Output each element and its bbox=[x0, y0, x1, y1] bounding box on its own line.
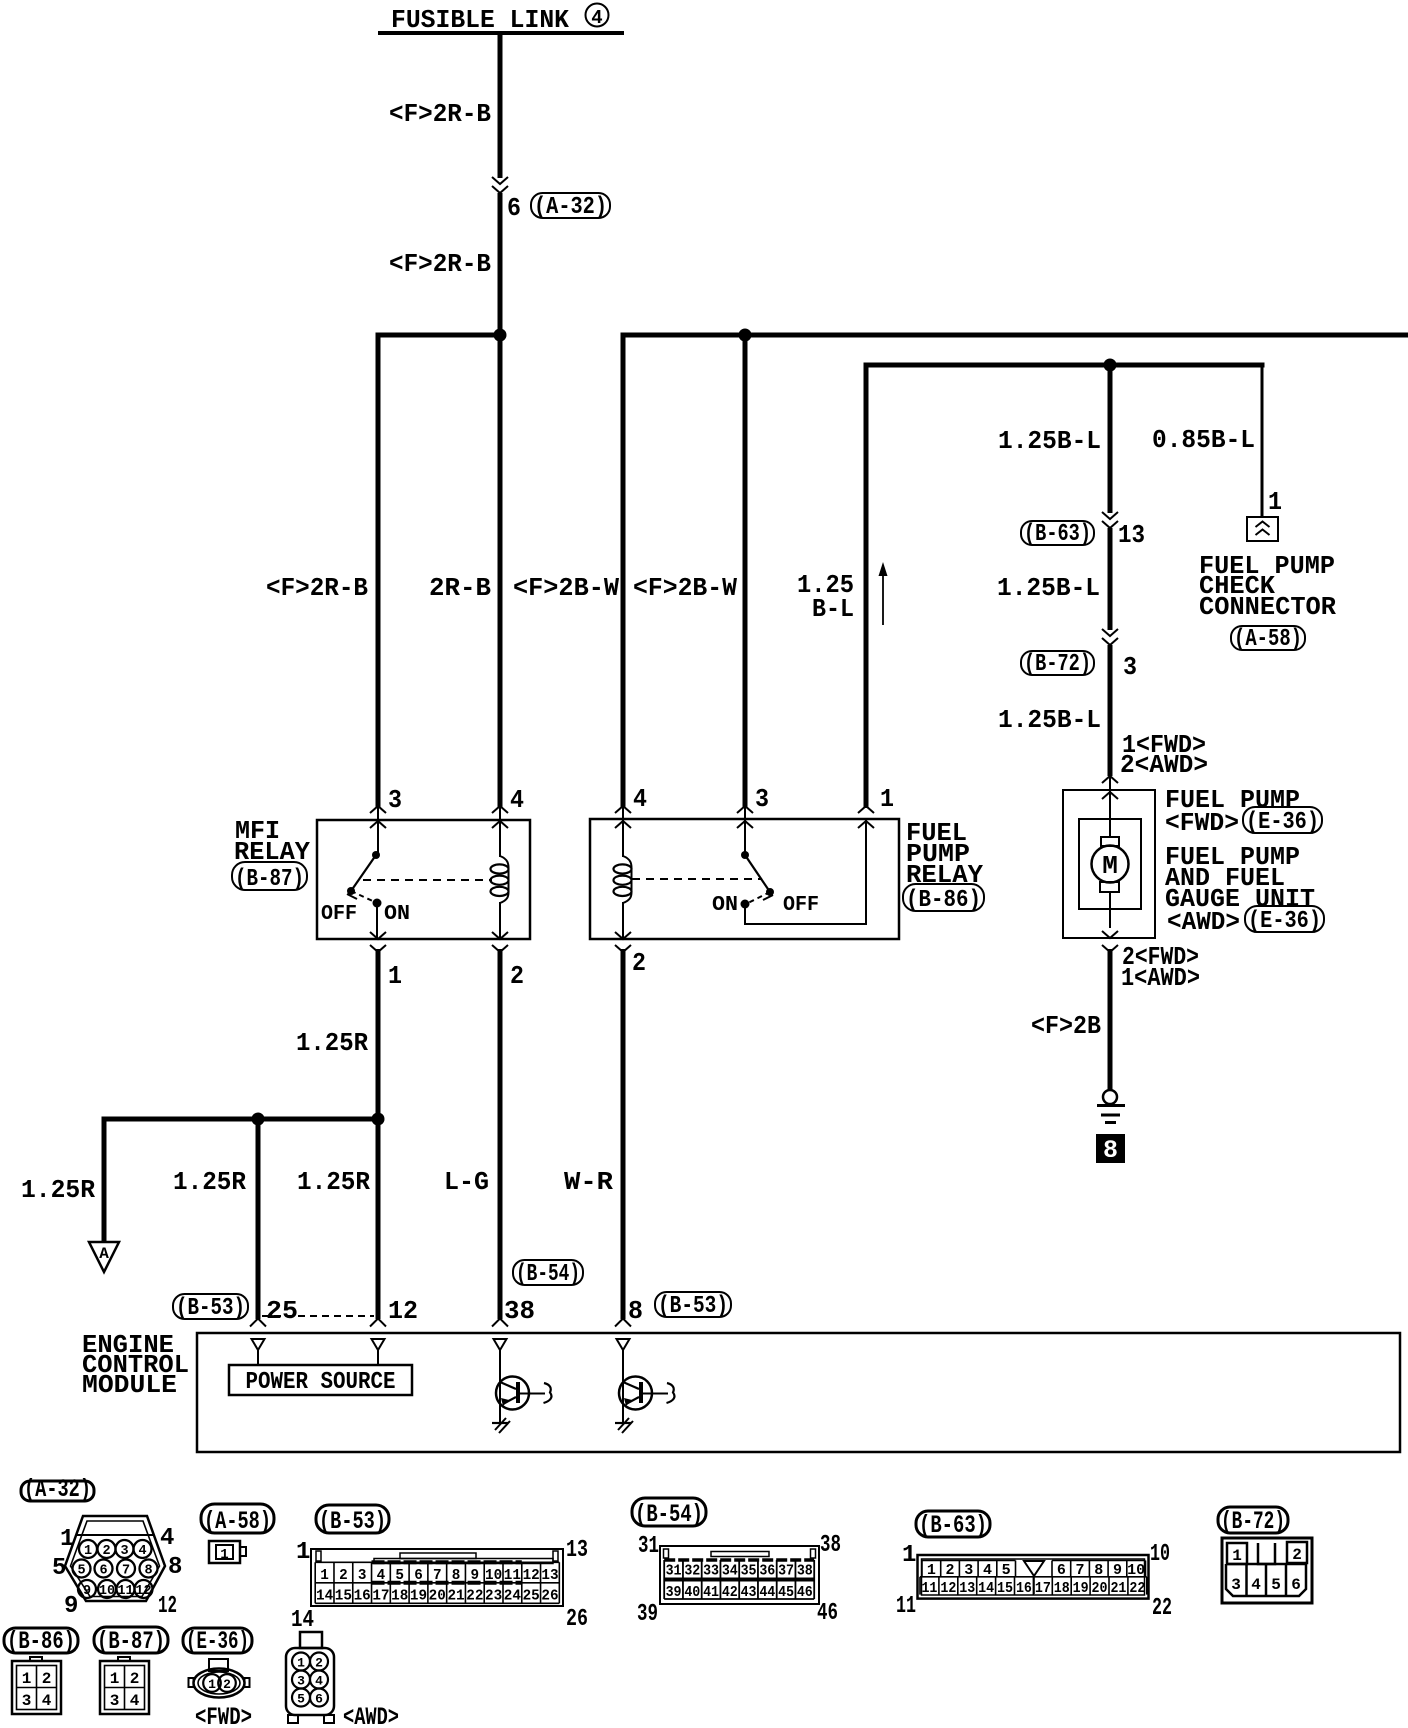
svg-text:18: 18 bbox=[391, 1589, 408, 1605]
label ENGINE CONTROL MODULE bbox=[82, 1330, 189, 1400]
svg-text:A: A bbox=[99, 1245, 109, 1263]
svg-text:34: 34 bbox=[722, 1564, 738, 1580]
svg-text:<FWD>: <FWD> bbox=[1165, 808, 1239, 838]
svg-text:2<AWD>: 2<AWD> bbox=[1120, 750, 1208, 780]
svg-text:(B-54): (B-54) bbox=[635, 1500, 703, 1529]
connector label B-87 bottom bbox=[94, 1627, 168, 1656]
svg-text:<AWD>: <AWD> bbox=[343, 1703, 399, 1728]
connector B-63 pin 13 double chevron bbox=[1102, 512, 1118, 528]
label FUEL PUMP AND FUEL GAUGE UNIT AWD bbox=[1165, 842, 1315, 937]
svg-text:4: 4 bbox=[315, 1674, 323, 1689]
svg-text:(A-32): (A-32) bbox=[24, 1475, 91, 1504]
MFI relay pin 2 chevrons bbox=[492, 932, 508, 952]
ECM pin 25 chevron bbox=[250, 1319, 266, 1327]
svg-text:10: 10 bbox=[1150, 1541, 1170, 1568]
B-63 corner labels bbox=[896, 1541, 1172, 1622]
current direction arrow up bbox=[879, 562, 888, 625]
svg-text:5: 5 bbox=[395, 1568, 404, 1584]
svg-text:1.25B-L: 1.25B-L bbox=[998, 426, 1101, 456]
svg-text:31: 31 bbox=[638, 1533, 659, 1560]
connector B-63 housing and grid bbox=[918, 1555, 1149, 1599]
svg-text:33: 33 bbox=[703, 1564, 719, 1580]
fuel pump check connector symbol bbox=[1247, 517, 1278, 541]
MFI relay pin 3 chevrons bbox=[370, 806, 386, 855]
wire branch to ECM pin 25 bbox=[256, 1119, 261, 1319]
svg-text:37: 37 bbox=[778, 1564, 794, 1580]
MFI relay box B-87 bbox=[317, 820, 530, 939]
svg-text:(B-63): (B-63) bbox=[919, 1511, 987, 1540]
svg-text:43: 43 bbox=[741, 1585, 757, 1601]
svg-text:CONNECTOR: CONNECTOR bbox=[1199, 592, 1336, 622]
wire (F)2R-B below A-32 bbox=[498, 193, 503, 335]
FP relay coil bbox=[614, 856, 632, 903]
connector label E-36 fwd bbox=[1243, 807, 1322, 836]
connector B-72 housing and pins bbox=[1222, 1538, 1312, 1603]
FP relay internal wire pin1 bbox=[745, 820, 866, 924]
wire FP relay pin3 vertical bbox=[743, 335, 748, 808]
connector B-53 housing bbox=[311, 1549, 563, 1606]
svg-text:OFF: OFF bbox=[783, 894, 819, 917]
svg-text:12: 12 bbox=[388, 1296, 418, 1326]
label FUEL PUMP CHECK CONNECTOR bbox=[1199, 551, 1336, 622]
svg-text:1: 1 bbox=[297, 1656, 305, 1671]
B-53 corner labels bbox=[291, 1537, 588, 1634]
svg-text:24: 24 bbox=[504, 1589, 522, 1605]
svg-text:2: 2 bbox=[339, 1568, 348, 1584]
connector B-54 housing and grid bbox=[660, 1546, 819, 1604]
connector label B-86 bbox=[903, 884, 984, 914]
svg-text:4: 4 bbox=[42, 1692, 52, 1710]
svg-text:1: 1 bbox=[220, 1547, 228, 1563]
FP relay switch bbox=[741, 851, 775, 909]
svg-text:2: 2 bbox=[42, 1670, 52, 1688]
svg-text:21: 21 bbox=[447, 1589, 464, 1605]
svg-text:20: 20 bbox=[1092, 1580, 1108, 1597]
node junction pin25 branch bbox=[252, 1113, 265, 1126]
wire pump to ground (F)2B bbox=[1108, 949, 1113, 1090]
svg-text:36: 36 bbox=[759, 1564, 775, 1580]
ECM pin 12 terminal bbox=[372, 1339, 385, 1365]
svg-text:12: 12 bbox=[940, 1580, 956, 1597]
svg-text:2: 2 bbox=[1292, 1546, 1302, 1564]
FP relay pin 3 chevrons bbox=[737, 806, 753, 855]
svg-text:RELAY: RELAY bbox=[906, 860, 983, 890]
label MFI RELAY bbox=[234, 816, 310, 867]
ECM pin 25 terminal bbox=[252, 1339, 265, 1365]
MFI relay pin 4 chevrons bbox=[492, 806, 508, 857]
svg-text:ON: ON bbox=[384, 903, 410, 926]
svg-text:12: 12 bbox=[135, 1584, 151, 1599]
svg-text:<F>2B: <F>2B bbox=[1031, 1011, 1101, 1041]
svg-text:2: 2 bbox=[510, 961, 524, 991]
svg-text:45: 45 bbox=[778, 1585, 794, 1601]
wire FP relay pin1 vertical bbox=[864, 363, 869, 809]
connector label B-53 bottom bbox=[316, 1505, 389, 1536]
svg-text:1: 1 bbox=[84, 1544, 92, 1559]
svg-text:FUSIBLE LINK: FUSIBLE LINK bbox=[391, 5, 569, 35]
svg-text:1.25R: 1.25R bbox=[21, 1175, 95, 1205]
fuel pump inner box bbox=[1079, 819, 1141, 909]
svg-text:4: 4 bbox=[510, 785, 524, 815]
MFI relay coil bbox=[491, 856, 509, 903]
connector label B-63 bottom bbox=[916, 1511, 990, 1540]
wire MFI pin4 vertical bbox=[498, 335, 503, 808]
svg-text:2: 2 bbox=[102, 1544, 110, 1559]
svg-text:3: 3 bbox=[755, 784, 769, 814]
svg-text:1.25B-L: 1.25B-L bbox=[998, 705, 1101, 735]
svg-text:19: 19 bbox=[410, 1589, 427, 1605]
svg-text:4: 4 bbox=[1251, 1576, 1261, 1594]
svg-text:20: 20 bbox=[429, 1589, 446, 1605]
svg-text:10: 10 bbox=[99, 1584, 115, 1599]
svg-text:32: 32 bbox=[684, 1564, 700, 1580]
power source box bbox=[229, 1365, 412, 1395]
ECM pin 38 chevron bbox=[492, 1319, 508, 1327]
svg-text:3: 3 bbox=[358, 1568, 367, 1584]
svg-text:22: 22 bbox=[1152, 1595, 1172, 1622]
svg-text:18: 18 bbox=[1054, 1580, 1070, 1597]
svg-text:17: 17 bbox=[372, 1589, 389, 1605]
svg-text:(E-36): (E-36) bbox=[186, 1627, 249, 1656]
FP relay pin 4 chevrons bbox=[615, 806, 631, 857]
svg-text:<F>2R-B: <F>2R-B bbox=[389, 249, 491, 279]
A-32 corner labels bbox=[52, 1525, 182, 1620]
connector label B-72 bbox=[1021, 651, 1094, 678]
svg-text:3: 3 bbox=[120, 1544, 128, 1559]
svg-text:39: 39 bbox=[637, 1601, 658, 1628]
fuel pump relay box B-86 bbox=[590, 819, 899, 939]
wire 1.25B-L middle bbox=[1108, 528, 1113, 630]
svg-text:6: 6 bbox=[414, 1568, 423, 1584]
off-page connector triangle A bbox=[89, 1242, 119, 1272]
svg-text:41: 41 bbox=[703, 1585, 719, 1601]
svg-text:1: 1 bbox=[880, 784, 894, 814]
svg-text:9: 9 bbox=[471, 1568, 480, 1584]
fuel pump outer box bbox=[1063, 790, 1155, 938]
MFI relay linkage dashed bbox=[363, 879, 492, 881]
connector label A-32 bbox=[531, 193, 610, 221]
svg-text:5: 5 bbox=[297, 1692, 305, 1707]
svg-text:11: 11 bbox=[896, 1593, 916, 1620]
svg-text:(B-86): (B-86) bbox=[7, 1627, 75, 1656]
svg-text:B-L: B-L bbox=[812, 594, 854, 624]
svg-text:2: 2 bbox=[130, 1670, 140, 1688]
svg-text:22: 22 bbox=[466, 1589, 483, 1605]
wire FP coil to pin2 bbox=[622, 902, 624, 939]
svg-text:5: 5 bbox=[52, 1555, 66, 1582]
svg-text:39: 39 bbox=[666, 1585, 682, 1601]
svg-text:7: 7 bbox=[122, 1564, 130, 1579]
svg-text:1.25B-L: 1.25B-L bbox=[997, 573, 1100, 603]
svg-text:40: 40 bbox=[684, 1585, 700, 1601]
svg-text:MODULE: MODULE bbox=[82, 1370, 177, 1400]
svg-text:<FWD>: <FWD> bbox=[195, 1703, 252, 1728]
svg-text:M: M bbox=[1102, 851, 1118, 881]
svg-text:<F>2B-W: <F>2B-W bbox=[633, 573, 737, 603]
svg-text:11: 11 bbox=[921, 1580, 937, 1597]
svg-text:26: 26 bbox=[566, 1606, 588, 1633]
node junction at top bus bbox=[494, 329, 507, 342]
MFI relay pin 1 chevrons bbox=[370, 932, 386, 952]
svg-text:6: 6 bbox=[315, 1692, 323, 1707]
svg-text:(B-53): (B-53) bbox=[176, 1295, 245, 1322]
bus to ECM power pins bbox=[104, 1117, 381, 1122]
ECM pin 8 chevron bbox=[615, 1319, 631, 1327]
svg-text:2R-B: 2R-B bbox=[429, 573, 491, 603]
svg-text:15: 15 bbox=[997, 1580, 1013, 1597]
svg-text:(B-72): (B-72) bbox=[1221, 1507, 1285, 1536]
svg-text:13: 13 bbox=[541, 1568, 558, 1584]
svg-text:1: 1 bbox=[1268, 487, 1282, 517]
svg-text:25: 25 bbox=[266, 1296, 298, 1326]
svg-text:1<AWD>: 1<AWD> bbox=[1121, 963, 1200, 993]
transistor Q1 at ECM pin 38 bbox=[492, 1376, 551, 1433]
ECM pin 38 terminal bbox=[494, 1339, 507, 1377]
svg-text:ON: ON bbox=[712, 894, 738, 917]
svg-text:13: 13 bbox=[959, 1580, 975, 1597]
node junction bus3 bbox=[1104, 359, 1117, 372]
svg-text:5: 5 bbox=[1271, 1576, 1281, 1594]
svg-text:1: 1 bbox=[208, 1677, 216, 1692]
connector label A-58 bottom bbox=[201, 1504, 274, 1536]
wire MFI pin2 to ECM pin 38 L-G bbox=[498, 949, 503, 1319]
connector label B-63 bbox=[1021, 521, 1094, 548]
wire (F)2R-B from fusible link bbox=[498, 35, 503, 178]
svg-text:1: 1 bbox=[296, 1539, 310, 1566]
svg-text:(B-72): (B-72) bbox=[1024, 651, 1091, 678]
FP relay linkage dashed bbox=[632, 878, 762, 880]
connector label B-53 right bbox=[655, 1292, 731, 1320]
svg-text:8: 8 bbox=[452, 1568, 461, 1584]
svg-text:3: 3 bbox=[1231, 1576, 1241, 1594]
svg-text:<F>2B-W: <F>2B-W bbox=[513, 573, 619, 603]
svg-text:2: 2 bbox=[223, 1677, 231, 1692]
svg-text:8: 8 bbox=[144, 1564, 152, 1579]
node junction pin12 branch bbox=[372, 1113, 385, 1126]
svg-text:1.25R: 1.25R bbox=[173, 1167, 246, 1197]
wire into fuel pump chevrons bbox=[1102, 776, 1118, 837]
fuel pump exit chevrons bbox=[1102, 931, 1118, 952]
svg-text:2: 2 bbox=[315, 1656, 323, 1671]
svg-text:38: 38 bbox=[797, 1564, 813, 1580]
ground reference 8 black box bbox=[1096, 1134, 1125, 1165]
svg-text:12: 12 bbox=[523, 1568, 540, 1584]
svg-text:15: 15 bbox=[335, 1589, 352, 1605]
svg-text:4: 4 bbox=[633, 784, 647, 814]
svg-text:(A-58): (A-58) bbox=[1234, 626, 1302, 653]
svg-text:4: 4 bbox=[160, 1525, 174, 1552]
wire to off-page A bbox=[102, 1117, 107, 1243]
dashed connector grouping pins 25-12 bbox=[262, 1315, 374, 1317]
connector A-32 pins 1-12 bbox=[73, 1540, 158, 1599]
svg-text:3: 3 bbox=[297, 1674, 305, 1689]
svg-text:42: 42 bbox=[722, 1585, 738, 1601]
svg-text:5: 5 bbox=[77, 1564, 85, 1579]
wire MFI pin3 vertical bbox=[376, 333, 381, 809]
svg-text:<F>2R-B: <F>2R-B bbox=[266, 573, 368, 603]
svg-text:1: 1 bbox=[1232, 1547, 1242, 1565]
connector A-32 pinout housing bbox=[65, 1516, 165, 1601]
svg-text:6: 6 bbox=[507, 193, 521, 223]
connector E-36 pinout FWD bbox=[189, 1659, 250, 1698]
svg-text:4: 4 bbox=[591, 7, 602, 29]
bus wire 2 to right edge bbox=[623, 333, 1408, 338]
svg-text:3: 3 bbox=[22, 1692, 32, 1710]
svg-text:3: 3 bbox=[1123, 652, 1137, 682]
connector B-86 pinout bbox=[12, 1657, 61, 1714]
svg-text:12: 12 bbox=[158, 1593, 177, 1620]
connector label B-72 bottom bbox=[1218, 1507, 1288, 1536]
engine control module box bbox=[197, 1333, 1400, 1452]
svg-text:3: 3 bbox=[388, 785, 402, 815]
svg-text:(E-36): (E-36) bbox=[1248, 908, 1321, 935]
svg-text:3: 3 bbox=[110, 1692, 120, 1710]
svg-text:L-G: L-G bbox=[444, 1167, 489, 1197]
svg-text:(E-36): (E-36) bbox=[1246, 809, 1319, 836]
connector B-53 pin grid bbox=[315, 1562, 559, 1604]
svg-text:21: 21 bbox=[1110, 1580, 1126, 1597]
ECM pin 8 terminal bbox=[617, 1339, 630, 1377]
svg-text:1: 1 bbox=[110, 1670, 120, 1688]
svg-text:13: 13 bbox=[1118, 520, 1145, 550]
svg-text:1: 1 bbox=[388, 961, 402, 991]
svg-text:1: 1 bbox=[320, 1568, 329, 1584]
B-54 corner labels bbox=[637, 1532, 841, 1628]
svg-text:38: 38 bbox=[820, 1532, 841, 1559]
connector B-87 pinout bbox=[100, 1657, 149, 1714]
svg-text:8: 8 bbox=[628, 1296, 643, 1326]
svg-text:13: 13 bbox=[566, 1537, 588, 1564]
connector B-72 pin 3 double chevron bbox=[1102, 629, 1118, 645]
connector label A-58 bbox=[1231, 626, 1305, 653]
svg-text:(B-53): (B-53) bbox=[658, 1293, 728, 1320]
svg-text:(B-63): (B-63) bbox=[1024, 521, 1091, 548]
svg-text:16: 16 bbox=[354, 1589, 371, 1605]
svg-text:16: 16 bbox=[1016, 1580, 1032, 1597]
fusible link 4 power source title bbox=[378, 4, 624, 36]
svg-text:7: 7 bbox=[433, 1568, 442, 1584]
bus wire to MFI relay pin 3 bbox=[376, 333, 503, 338]
svg-text:4: 4 bbox=[377, 1568, 386, 1584]
connector E-36 pinout AWD bbox=[286, 1632, 334, 1723]
connector A-32 pin 6 double chevron bbox=[492, 177, 508, 193]
svg-text:0.85B-L: 0.85B-L bbox=[1152, 425, 1255, 455]
svg-text:8: 8 bbox=[168, 1554, 182, 1581]
svg-text:1.25R: 1.25R bbox=[296, 1028, 368, 1058]
label FUEL PUMP FWD E-36 bbox=[1165, 785, 1300, 838]
svg-text:31: 31 bbox=[666, 1564, 682, 1580]
ground symbol bbox=[1097, 1090, 1125, 1123]
svg-text:2: 2 bbox=[632, 948, 646, 978]
svg-text:9: 9 bbox=[83, 1584, 91, 1599]
wire 1.25B-L to fuel pump upper bbox=[1108, 365, 1113, 513]
svg-text:(A-58): (A-58) bbox=[204, 1507, 271, 1536]
FP relay pin 1 chevrons bbox=[858, 806, 874, 828]
connector label E-36 bottom bbox=[183, 1627, 252, 1656]
wire MFI coil to pin2 bbox=[499, 902, 501, 939]
svg-text:23: 23 bbox=[485, 1589, 502, 1605]
connector A-58 pinout bbox=[209, 1541, 246, 1563]
svg-text:W-R: W-R bbox=[564, 1167, 613, 1197]
svg-text:26: 26 bbox=[541, 1589, 558, 1605]
svg-text:46: 46 bbox=[817, 1600, 838, 1627]
svg-text:<F>2R-B: <F>2R-B bbox=[389, 99, 491, 129]
label pump exit pins bbox=[1121, 942, 1200, 993]
svg-text:<AWD>: <AWD> bbox=[1167, 907, 1240, 937]
svg-text:11: 11 bbox=[504, 1568, 521, 1584]
wire to ECM pin 12 bbox=[376, 1119, 381, 1319]
svg-text:4: 4 bbox=[138, 1544, 146, 1559]
label FUEL PUMP RELAY bbox=[906, 818, 983, 890]
connector label B-54 mid bbox=[513, 1260, 583, 1288]
node junction bus2 bbox=[739, 329, 752, 342]
transistor Q2 at ECM pin 8 bbox=[615, 1376, 674, 1433]
svg-text:22: 22 bbox=[1129, 1580, 1145, 1597]
connector label B-87 bbox=[232, 862, 307, 893]
svg-text:1: 1 bbox=[22, 1670, 32, 1688]
svg-text:6: 6 bbox=[1291, 1576, 1301, 1594]
svg-text:14: 14 bbox=[316, 1589, 334, 1605]
svg-text:17: 17 bbox=[1035, 1580, 1051, 1597]
wire MFI pin1 down 1.25R bbox=[376, 949, 381, 1122]
svg-text:14: 14 bbox=[291, 1607, 314, 1634]
wire FP relay pin4 vertical bbox=[621, 333, 626, 809]
svg-text:1: 1 bbox=[60, 1526, 74, 1553]
svg-text:OFF: OFF bbox=[321, 903, 357, 926]
svg-text:(B-54): (B-54) bbox=[516, 1261, 580, 1288]
svg-text:9: 9 bbox=[64, 1593, 78, 1620]
wire FP pin2 to ECM pin 8 W-R bbox=[621, 949, 626, 1319]
svg-text:46: 46 bbox=[797, 1585, 813, 1601]
fuel pump motor M bbox=[1092, 837, 1129, 928]
MFI relay switch bbox=[347, 851, 382, 939]
svg-text:14: 14 bbox=[978, 1580, 994, 1597]
svg-text:38: 38 bbox=[504, 1296, 535, 1326]
bus wire 3 fuel pump feed bbox=[866, 363, 1265, 368]
label 1.25 B-L two lines bbox=[797, 570, 854, 624]
svg-text:6: 6 bbox=[99, 1564, 107, 1579]
svg-text:(A-32): (A-32) bbox=[534, 194, 607, 221]
connector label B-54 bottom bbox=[632, 1498, 706, 1529]
svg-text:35: 35 bbox=[741, 1564, 757, 1580]
svg-text:11: 11 bbox=[117, 1584, 133, 1599]
svg-text:POWER SOURCE: POWER SOURCE bbox=[246, 1369, 396, 1396]
svg-text:25: 25 bbox=[523, 1589, 540, 1605]
connector label A-32 bottom bbox=[21, 1475, 94, 1504]
wire 1.25B-L lower bbox=[1108, 645, 1113, 776]
svg-text:(B-86): (B-86) bbox=[906, 887, 981, 914]
svg-text:(B-53): (B-53) bbox=[319, 1507, 386, 1536]
svg-text:19: 19 bbox=[1073, 1580, 1089, 1597]
svg-text:8: 8 bbox=[1103, 1136, 1118, 1165]
connector label B-53 left bbox=[173, 1294, 248, 1322]
ECM pin 12 chevron bbox=[370, 1319, 386, 1327]
wire 0.85B-L check connector bbox=[1261, 363, 1264, 518]
connector label B-86 bottom bbox=[4, 1627, 78, 1656]
connector label E-36 awd bbox=[1245, 906, 1324, 935]
svg-text:(B-87): (B-87) bbox=[97, 1627, 165, 1656]
svg-text:1: 1 bbox=[902, 1542, 916, 1569]
svg-text:10: 10 bbox=[485, 1568, 502, 1584]
FP relay pin 2 chevrons bbox=[615, 932, 631, 952]
svg-text:1.25R: 1.25R bbox=[297, 1167, 370, 1197]
svg-text:(B-87): (B-87) bbox=[235, 866, 304, 893]
svg-text:44: 44 bbox=[759, 1585, 775, 1601]
svg-text:4: 4 bbox=[130, 1692, 140, 1710]
